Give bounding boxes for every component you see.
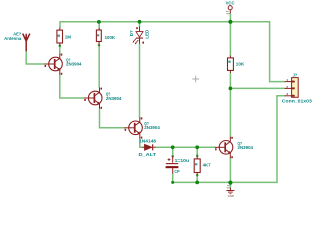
junction 4K7 bottom: [195, 181, 199, 185]
wire right drop to pin1: [270, 22, 285, 82]
wire 1M to Q1 collector: [59, 46, 61, 54]
node 100K bottom pin: [98, 44, 101, 47]
junction VCC: [228, 20, 232, 24]
junction gnd: [228, 181, 232, 185]
power VCC: [228, 6, 232, 14]
hidden pin text VCC: [226, 11, 231, 14]
wire vcc rail to 10K: [229, 22, 231, 56]
svg-text:Conn_01x03: Conn_01x03: [282, 99, 313, 104]
junction pin2 row: [229, 87, 233, 91]
diode D_ALT 1N4148: [142, 144, 155, 150]
svg-text:J?: J?: [293, 73, 298, 78]
resistor R4K7: [194, 156, 200, 175]
wire Q2 emitter to Q3 base: [100, 109, 125, 128]
LED D?: [133, 27, 143, 44]
wire LED junction stub: [139, 22, 141, 27]
svg-text:D_ALT: D_ALT: [139, 152, 157, 157]
wire pin2 row: [230, 87, 284, 89]
transistor Q3 2N3904: [125, 117, 143, 138]
transistor Q2 2N3904: [84, 88, 102, 109]
pin 1 label LED: [142, 42, 144, 44]
wire 10K to Q4 collector: [229, 73, 231, 137]
svg-text:VCC: VCC: [226, 1, 236, 6]
ground: [227, 185, 231, 188]
node 1M bottom pin: [59, 45, 62, 48]
svg-text:2N3904: 2N3904: [238, 145, 254, 150]
svg-text:2N3904: 2N3904: [66, 62, 82, 67]
resistor R1M: [57, 28, 63, 46]
wire diode to Q4 base: [155, 146, 215, 148]
node cap top pin: [171, 155, 174, 158]
wire 4K7 top stub: [196, 147, 198, 156]
junction above 100K: [97, 20, 101, 24]
svg-text:GND: GND: [228, 194, 234, 198]
transistor Q1 2N3904: [45, 54, 63, 75]
svg-text:Antenna: Antenna: [4, 36, 22, 41]
junction cap top: [171, 145, 175, 149]
wire vcc stem: [229, 14, 231, 22]
transistor Q4 2N3904: [215, 137, 233, 159]
pin 2 stub: [285, 87, 292, 89]
wire pin3 row: [277, 96, 285, 183]
pin 2 label LED: [136, 27, 138, 29]
svg-text:2N3904: 2N3904: [106, 96, 122, 101]
wire 4K7 bottom stub: [196, 175, 198, 182]
wire Q3 emitter to diode: [140, 138, 143, 147]
pin 3 stub: [285, 95, 292, 97]
wire gnd stub: [229, 182, 231, 187]
wire 100K top stub: [98, 22, 100, 28]
capacitor CP: [166, 156, 179, 173]
svg-text:LED: LED: [144, 30, 149, 39]
connector J? Conn_01x03: [285, 78, 299, 98]
wire Q4 emitter down: [229, 158, 231, 182]
wire cap bottom corner: [172, 174, 174, 183]
svg-text:2N3904: 2N3904: [144, 125, 160, 130]
svg-text:10K: 10K: [236, 62, 245, 67]
node 4K7 bottom pin: [196, 174, 199, 177]
wire Q1 emitter to Q2 base: [60, 75, 85, 98]
wire bottom rail: [173, 181, 277, 183]
svg-text:CP: CP: [174, 169, 179, 174]
sheet marker cross: [192, 76, 199, 83]
pin 1 stub: [285, 81, 292, 83]
wire 100K to Q2 collector: [98, 45, 100, 87]
resistor R100K: [96, 28, 101, 46]
resistor R10K: [228, 56, 234, 73]
wire antenna to Q1 base: [26, 51, 44, 64]
svg-text:100K: 100K: [105, 35, 116, 40]
junction cap bottom: [171, 181, 174, 184]
junction 4K7 top: [195, 145, 199, 149]
wire top rail: [60, 21, 270, 23]
svg-text:D?: D?: [129, 30, 134, 36]
wire cap top stub: [172, 147, 174, 156]
wire 1M top stub: [59, 22, 61, 28]
wire LED to Q3 collector: [139, 44, 141, 118]
svg-text:1=10u: 1=10u: [175, 158, 190, 163]
node 4K7 top pin: [196, 155, 199, 158]
svg-text:4K7: 4K7: [203, 162, 212, 167]
svg-text:1M: 1M: [65, 35, 72, 40]
svg-text:1N4148: 1N4148: [139, 139, 157, 144]
antenna AE?: [23, 34, 30, 52]
junction above LED: [138, 20, 142, 24]
